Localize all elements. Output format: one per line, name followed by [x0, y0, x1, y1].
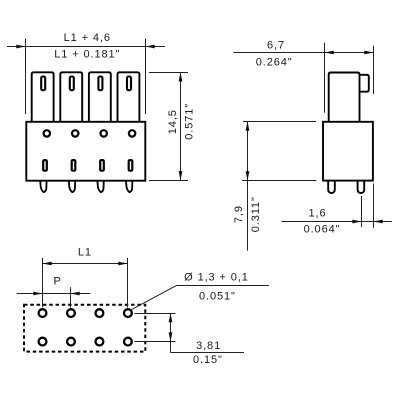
tower slot 3	[98, 77, 102, 91]
svg-text:L1 + 4,6: L1 + 4,6	[64, 32, 111, 44]
dim line L1+4,6	[7, 46, 165, 48]
dimension P	[17, 287, 91, 307]
ext line left	[324, 43, 326, 113]
lower slot 2	[72, 160, 76, 171]
side tower	[329, 73, 360, 122]
lower slot 1	[43, 160, 47, 171]
dimension 7,9 left of side view	[242, 122, 316, 251]
ext line left (pin center)	[361, 196, 363, 227]
svg-text:0.15": 0.15"	[193, 354, 223, 366]
svg-text:7,9: 7,9	[233, 205, 245, 223]
svg-text:L1 + 0.181": L1 + 0.181"	[54, 49, 120, 61]
front body	[26, 122, 145, 181]
hole r2c2	[67, 338, 75, 346]
arrow up 3,81	[169, 313, 173, 322]
side pin 2	[358, 181, 365, 193]
dimension L1+4.6 top	[7, 39, 165, 115]
ext line right (body edge)	[373, 184, 375, 228]
svg-text:0.311": 0.311"	[250, 196, 262, 232]
dim line 1,6	[282, 221, 392, 223]
dashed outline	[24, 305, 145, 352]
ext line row2	[135, 341, 176, 343]
leader diagonal	[131, 286, 176, 310]
text underline 3,81	[171, 352, 245, 354]
dimension 14,5 right of front view	[149, 72, 188, 180]
svg-text:14,5: 14,5	[167, 109, 179, 134]
leader underline	[176, 285, 269, 287]
tower slot 1	[41, 77, 45, 91]
ext line right	[373, 46, 375, 94]
dim line 3,81 vertical	[170, 313, 172, 352]
tower 4	[118, 72, 140, 122]
arrow left 6,7	[325, 51, 334, 55]
arrow right 6,7	[364, 51, 373, 55]
tower 2	[60, 72, 82, 122]
dim line 14,5	[180, 72, 182, 180]
svg-text:1,6: 1,6	[309, 208, 327, 220]
tower slot 4	[127, 77, 131, 91]
ext line right	[145, 39, 147, 115]
arrow down 7,9	[246, 171, 250, 180]
tower 3	[89, 72, 111, 122]
svg-text:0.051": 0.051"	[199, 291, 236, 303]
svg-text:0.571": 0.571"	[183, 103, 195, 140]
hole r1c3	[96, 309, 104, 317]
screw hole circle 1	[44, 130, 50, 136]
tower 1	[32, 72, 54, 122]
ext line row1	[135, 313, 176, 315]
side latch bump	[360, 75, 369, 92]
svg-text:P: P	[53, 276, 61, 288]
dimension L1	[43, 258, 128, 308]
hole r2c4	[124, 338, 132, 346]
dimension 3,81	[135, 313, 245, 352]
svg-text:3,81: 3,81	[196, 340, 221, 352]
hole r2c3	[96, 338, 104, 346]
tower slot 2	[70, 77, 74, 91]
svg-text:6,7: 6,7	[267, 40, 285, 52]
arrow up 7,9	[246, 122, 250, 131]
front pin 2	[69, 181, 75, 192]
front pin 3	[97, 181, 103, 192]
ext line left	[42, 258, 44, 308]
ext line bottom	[149, 180, 188, 182]
ext line right (hole2 center)	[70, 287, 72, 307]
arrow right L1	[118, 262, 127, 266]
front pin 1	[40, 181, 46, 192]
lower slot 3	[100, 160, 104, 171]
arrow down 3,81	[169, 332, 173, 341]
svg-text:L1: L1	[78, 247, 92, 259]
arrow into left ext 1,6	[352, 220, 361, 224]
side body	[323, 122, 373, 181]
ext line bottom	[242, 180, 316, 182]
arrow into right ext	[146, 45, 155, 49]
hole r1c4	[124, 309, 132, 317]
front pin 4	[126, 181, 132, 192]
ext line left	[25, 39, 27, 115]
hole r1c1	[39, 309, 47, 317]
svg-text:Ø 1,3 + 0,1: Ø 1,3 + 0,1	[184, 272, 249, 284]
svg-text:0.264": 0.264"	[256, 57, 293, 69]
hole r2c1	[39, 338, 47, 346]
dimension 6,7 top of side view	[233, 43, 373, 113]
dim line 6,7	[233, 52, 373, 54]
leader for hole diameter	[131, 286, 268, 310]
dim line L1	[43, 263, 128, 265]
dim line 7,9	[247, 122, 249, 251]
hole r1c2	[67, 309, 75, 317]
screw hole circle 4	[129, 130, 135, 136]
ext line top	[243, 121, 316, 123]
arrow into right ext P	[71, 292, 80, 296]
arrow into left ext P	[33, 292, 42, 296]
screw hole circle 3	[101, 130, 107, 136]
screw hole circle 2	[72, 130, 78, 136]
arrow down 14,5	[179, 171, 183, 180]
svg-text:0.064": 0.064"	[304, 224, 341, 236]
ext line right	[127, 258, 129, 308]
arrow into right ext 1,6	[374, 220, 383, 224]
arrow into left ext	[16, 45, 25, 49]
arrow up 14,5	[179, 72, 183, 81]
ext line top	[149, 72, 188, 74]
arrow left L1	[43, 262, 52, 266]
dim line P	[17, 293, 91, 295]
lower slot 4	[129, 160, 133, 171]
side pin 1	[328, 181, 335, 193]
dimension 1,6 bottom of side view	[282, 184, 392, 228]
